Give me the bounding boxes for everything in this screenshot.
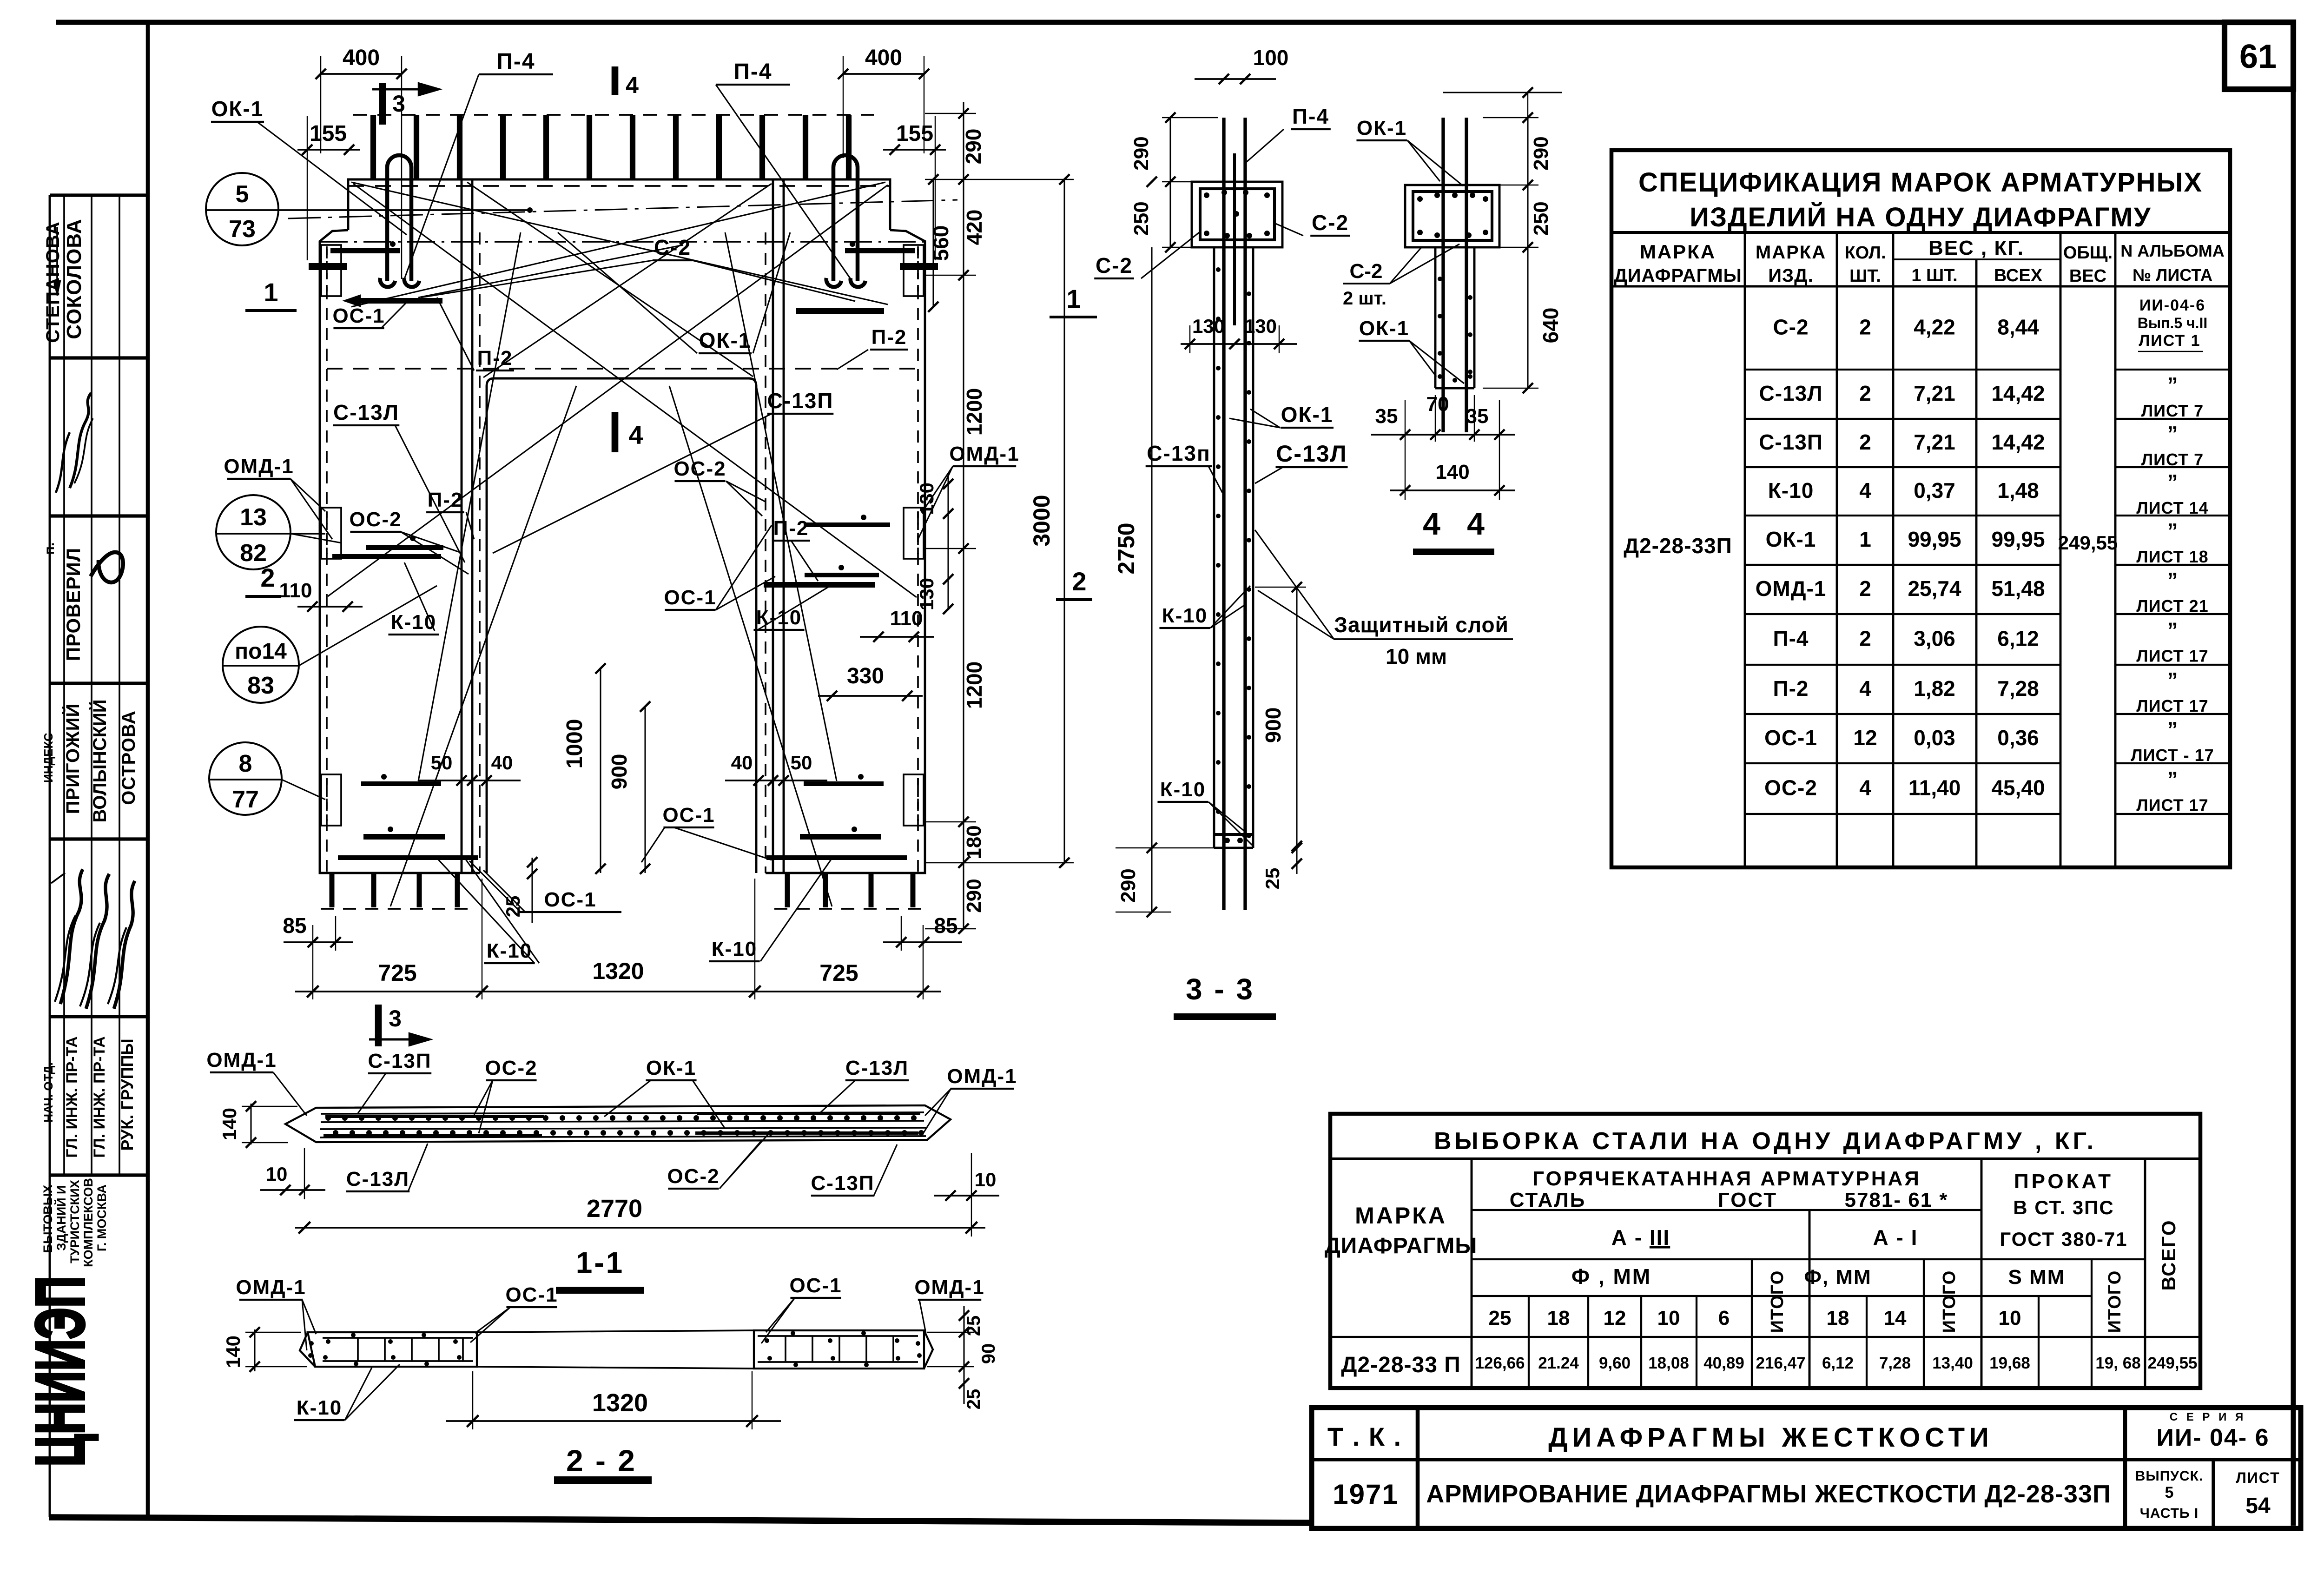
bottom dowels left leg (330, 873, 335, 907)
section 3-3 main bars ОК-1 (1222, 118, 1225, 910)
section 1-1 dots row1 (325, 1115, 331, 1121)
svg-text:ОС-1: ОС-1 (544, 888, 596, 911)
svg-text:2: 2 (1859, 430, 1871, 454)
svg-text:25: 25 (502, 896, 524, 918)
right dim 3000 (1063, 179, 1065, 863)
svg-text:4: 4 (1423, 506, 1440, 542)
svg-text:ОС-1: ОС-1 (662, 804, 715, 827)
svg-text:ОК-1: ОК-1 (1766, 527, 1816, 551)
signature strip grid (49, 195, 51, 1517)
svg-text:25,74: 25,74 (1908, 576, 1961, 601)
svg-text:4: 4 (1467, 506, 1485, 542)
section 1-1 dim 10 left (260, 1189, 325, 1191)
svg-text:725: 725 (378, 960, 416, 986)
svg-text:725: 725 (819, 960, 858, 986)
svg-text:900: 900 (1261, 708, 1285, 743)
svg-text:140: 140 (1435, 461, 1469, 483)
4-4 dim 140 (1390, 489, 1515, 491)
svg-text:ОК-1: ОК-1 (1357, 117, 1407, 139)
svg-text:ОК-1: ОК-1 (211, 97, 264, 121)
svg-text:”: ” (2167, 618, 2178, 642)
svg-text:ДИАФРАГМЫ: ДИАФРАГМЫ (1325, 1234, 1478, 1258)
spec table grid (1611, 231, 2230, 234)
svg-text:”: ” (2167, 422, 2178, 446)
svg-text:ОС-1: ОС-1 (1764, 726, 1817, 750)
svg-text:СТЕПАНОВА: СТЕПАНОВА (43, 221, 63, 343)
svg-text:П-4: П-4 (1292, 104, 1329, 128)
svg-text:0,37: 0,37 (1914, 478, 1955, 503)
frame bottom border (49, 1517, 1314, 1523)
ОМД-1 dashed anchor boxes right leg (904, 245, 924, 296)
svg-text:Д2-28-33П: Д2-28-33П (1624, 534, 1732, 558)
svg-text:ТУРИСТСКИХ: ТУРИСТСКИХ (68, 1180, 82, 1263)
svg-text:10: 10 (266, 1163, 288, 1185)
svg-text:К-10: К-10 (1162, 604, 1208, 627)
svg-text:250: 250 (1130, 201, 1153, 235)
svg-text:К-10: К-10 (712, 938, 757, 960)
svg-text:2 - 2: 2 - 2 (566, 1443, 637, 1478)
svg-text:330: 330 (847, 664, 884, 688)
svg-text:N АЛЬБОМА: N АЛЬБОМА (2120, 241, 2224, 260)
ОМД-1 dashed anchor boxes left leg (321, 245, 341, 296)
svg-text:ОК-1: ОК-1 (1281, 403, 1334, 427)
svg-text:”: ” (2167, 668, 2178, 692)
4-4 right chain 290/250/640 (1527, 118, 1528, 388)
svg-text:99,95: 99,95 (1908, 527, 1961, 551)
section 1-1 heavy mesh right (697, 1112, 920, 1115)
svg-text:ЛИСТ 18: ЛИСТ 18 (2136, 547, 2208, 566)
svg-text:”: ” (2167, 519, 2178, 543)
dim 100 top (1195, 78, 1276, 80)
svg-text:К-10: К-10 (1160, 778, 1206, 801)
svg-text:С-13П: С-13П (1759, 430, 1823, 454)
svg-text:КОМПЛЕКСОВ: КОМПЛЕКСОВ (81, 1178, 95, 1267)
svg-text:П-2: П-2 (773, 517, 809, 540)
right dim 180/290 bottom (925, 862, 976, 863)
svg-text:130: 130 (1192, 315, 1225, 337)
svg-text:ПРИГОЖИЙ: ПРИГОЖИЙ (62, 703, 83, 814)
svg-text:25: 25 (1261, 868, 1283, 890)
svg-text:6,12: 6,12 (1822, 1354, 1854, 1372)
svg-text:25: 25 (964, 1316, 984, 1336)
svg-text:130: 130 (916, 483, 938, 515)
svg-text:ГОСТ 380-71: ГОСТ 380-71 (2000, 1228, 2127, 1250)
svg-text:ГЛ. ИНЖ. ПР-ТА: ГЛ. ИНЖ. ПР-ТА (91, 1036, 108, 1157)
svg-text:11,40: 11,40 (1908, 776, 1961, 800)
section 4-4 strip (1434, 247, 1437, 388)
svg-text:”: ” (2167, 470, 2178, 494)
svg-text:ПРОВЕРИЛ: ПРОВЕРИЛ (62, 548, 84, 661)
svg-text:140: 140 (218, 1108, 240, 1140)
svg-text:4: 4 (1859, 478, 1871, 503)
svg-text:S ММ: S ММ (2008, 1266, 2066, 1289)
elevation top dashed tie line (353, 114, 874, 116)
svg-text:5: 5 (2165, 1484, 2174, 1501)
svg-text:7,21: 7,21 (1914, 430, 1955, 454)
svg-text:290: 290 (961, 129, 985, 165)
section 3-3 head outer (1192, 182, 1282, 247)
section 2-2 mid band (477, 1330, 754, 1332)
section 1-1 dim 2770 (295, 1227, 985, 1229)
svg-text:1000: 1000 (562, 719, 587, 769)
svg-text:1200: 1200 (962, 388, 986, 436)
frame left border (drawing area) (146, 22, 150, 1519)
svg-text:45,40: 45,40 (1991, 776, 2045, 800)
dim 110 left (297, 606, 363, 608)
svg-text:3: 3 (389, 1005, 402, 1032)
svg-text:1: 1 (264, 278, 278, 307)
svg-text:14,42: 14,42 (1991, 430, 2045, 454)
svg-text:19, 68: 19, 68 (2095, 1354, 2140, 1372)
flange dashed bar lines (348, 185, 890, 187)
svg-text:1971: 1971 (1333, 1479, 1398, 1510)
svg-text:ВОЛЫНСКИЙ: ВОЛЫНСКИЙ (89, 700, 110, 823)
svg-text:КОЛ.: КОЛ. (1844, 243, 1886, 263)
dim 900 (644, 707, 646, 873)
dim 110 right (860, 636, 934, 638)
svg-text:ОК-1: ОК-1 (1359, 317, 1409, 340)
svg-text:ДИАФРАГМЫ ЖЕСТКОСТИ: ДИАФРАГМЫ ЖЕСТКОСТИ (1548, 1422, 1994, 1453)
svg-text:70: 70 (1426, 393, 1449, 416)
svg-text:ЛИСТ 21: ЛИСТ 21 (2136, 596, 2208, 615)
section 3-3 head dots (1204, 192, 1209, 198)
svg-text:П-4: П-4 (733, 60, 772, 84)
svg-text:400: 400 (343, 46, 380, 70)
svg-text:ЛИСТ 1: ЛИСТ 1 (2139, 332, 2200, 350)
dash-dot axis across flange (288, 200, 957, 218)
svg-text:”: ” (2167, 767, 2178, 792)
svg-text:РУК. ГРУППЫ: РУК. ГРУППЫ (118, 1038, 137, 1151)
svg-text:ЗДАНИЙ И: ЗДАНИЙ И (54, 1185, 68, 1251)
svg-text:Д2-28-33 П: Д2-28-33 П (1341, 1353, 1460, 1377)
svg-text:С-13Л: С-13Л (333, 400, 399, 424)
svg-text:ОМД-1: ОМД-1 (236, 1276, 306, 1299)
svg-text:2: 2 (1859, 627, 1871, 651)
svg-text:2: 2 (260, 563, 275, 592)
svg-text:1-1: 1-1 (576, 1246, 625, 1279)
svg-text:С-2: С-2 (1350, 260, 1383, 283)
svg-text:ИТОГО: ИТОГО (2105, 1270, 2125, 1333)
section 3-3 bottom stirrup marks (1214, 833, 1253, 836)
section 4-4 head outer (1405, 185, 1499, 247)
steel table grid horizontals (1472, 1209, 1981, 1211)
svg-text:12: 12 (1853, 726, 1877, 750)
svg-text:Защитный слой: Защитный слой (1334, 613, 1509, 637)
dim 85 right (883, 941, 962, 943)
svg-text:0,36: 0,36 (1997, 726, 2039, 750)
svg-text:40: 40 (731, 752, 753, 774)
svg-text:7,28: 7,28 (1997, 676, 2039, 701)
svg-text:51,48: 51,48 (1991, 576, 2045, 601)
П-4 hairpin right (833, 155, 858, 281)
svg-text:126,66: 126,66 (1475, 1354, 1525, 1372)
bottom dowels right leg (785, 873, 790, 907)
svg-text:7,21: 7,21 (1914, 381, 1955, 405)
svg-text:ОК-1: ОК-1 (699, 328, 752, 352)
svg-text:ДИАФРАГМЫ: ДИАФРАГМЫ (1614, 265, 1742, 286)
svg-text:1: 1 (1066, 284, 1081, 313)
svg-text:ОК-1: ОК-1 (646, 1057, 696, 1079)
section 2-2 dim 1320 (446, 1420, 781, 1422)
svg-text:4: 4 (1859, 676, 1871, 701)
3-3 dim 25 (1296, 848, 1297, 874)
section 2-2 left block mesh ladder (323, 1337, 473, 1339)
svg-text:ГОСТ: ГОСТ (1718, 1189, 1777, 1211)
svg-text:ВСЕХ: ВСЕХ (1994, 266, 2043, 285)
svg-text:290: 290 (1130, 136, 1153, 170)
svg-text:2: 2 (1859, 315, 1871, 339)
svg-text:155: 155 (896, 121, 933, 146)
3-3 dim 290 bottom (1151, 848, 1152, 912)
svg-text:8,44: 8,44 (1997, 315, 2039, 339)
steel table outer frame (1330, 1114, 2200, 1388)
svg-text:П-4: П-4 (1773, 627, 1809, 651)
right dim chain 290/420/1200/1200 (963, 102, 964, 873)
svg-text:П-2: П-2 (1773, 676, 1809, 701)
svg-text:290: 290 (1117, 868, 1140, 902)
svg-text:АРМИРОВАНИЕ ДИАФРАГМЫ ЖЕСТКО: АРМИРОВАНИЕ ДИАФРАГМЫ ЖЕСТКОСТИ Д2-28-33… (1426, 1480, 2111, 1508)
svg-text:560: 560 (929, 225, 953, 261)
dim 155 right (883, 149, 946, 151)
svg-text:ЛИСТ 7: ЛИСТ 7 (2141, 450, 2204, 469)
svg-text:ОС-2: ОС-2 (485, 1057, 537, 1079)
svg-text:п.: п. (42, 542, 57, 555)
section 4-4 head stirrup (1413, 192, 1492, 240)
svg-text:ОМД-1: ОМД-1 (947, 1065, 1017, 1088)
svg-text:420: 420 (962, 210, 986, 245)
svg-text:155: 155 (310, 121, 347, 146)
mark circle 5/73 (206, 173, 278, 245)
svg-text:900: 900 (607, 754, 631, 790)
svg-text:83: 83 (247, 672, 274, 699)
svg-text:ОБЩ.: ОБЩ. (2063, 243, 2113, 263)
section 1-1 mesh lines (321, 1112, 924, 1114)
section 2-2 dim 140 (254, 1329, 255, 1371)
section 2-2 right block (754, 1330, 924, 1369)
svg-text:Вып.5 ч.II: Вып.5 ч.II (2138, 315, 2208, 331)
3-3 dim 130 130 (1181, 343, 1297, 345)
svg-text:4: 4 (628, 420, 643, 450)
svg-text:25: 25 (1489, 1307, 1512, 1329)
svg-text:40,89: 40,89 (1703, 1354, 1744, 1372)
svg-text:140: 140 (222, 1336, 244, 1368)
svg-text:ЛИСТ 17: ЛИСТ 17 (2136, 647, 2208, 666)
svg-text:С-13Л: С-13Л (346, 1168, 409, 1190)
heavy rebar bars right leg (845, 248, 915, 253)
bottom dim chain 725 1320 725 (295, 991, 941, 992)
long thin leader diagonals (351, 182, 885, 307)
svg-text:2: 2 (1072, 567, 1086, 596)
svg-text:18,08: 18,08 (1648, 1354, 1689, 1372)
svg-text:3000: 3000 (1029, 495, 1055, 546)
svg-text:18: 18 (1827, 1307, 1849, 1329)
section 2-2 left block (308, 1332, 477, 1367)
svg-text:50: 50 (791, 752, 812, 774)
svg-text:ОС-1: ОС-1 (505, 1283, 558, 1306)
svg-text:Ф, ММ: Ф, ММ (1804, 1266, 1871, 1289)
section 2-2 dims 25 90 25 (963, 1306, 964, 1404)
svg-text:СОКОЛОВА: СОКОЛОВА (63, 218, 86, 339)
svg-text:14: 14 (1884, 1307, 1907, 1329)
svg-text:НАЧ. ОТД.: НАЧ. ОТД. (41, 1062, 55, 1123)
svg-text:СТАЛЬ: СТАЛЬ (1510, 1189, 1586, 1211)
svg-text:35: 35 (1375, 405, 1398, 428)
svg-text:180: 180 (963, 825, 985, 859)
svg-text:ВЕС: ВЕС (2069, 266, 2106, 286)
svg-text:МАРКА: МАРКА (1355, 1203, 1447, 1229)
svg-text:ОСТРОВА: ОСТРОВА (119, 710, 139, 805)
4-4 dims 35 70 35 (1371, 434, 1515, 436)
svg-text:54: 54 (2245, 1494, 2271, 1518)
right dim 560 (932, 179, 934, 307)
svg-text:100: 100 (1253, 46, 1289, 70)
strip handwritten signatures 1 (70, 393, 91, 488)
svg-text:А - III: А - III (1611, 1225, 1670, 1250)
svg-text:С-2: С-2 (1096, 253, 1133, 278)
dim 400 right top (843, 73, 924, 75)
svg-text:С-2: С-2 (1312, 211, 1349, 235)
title block outer (1312, 1408, 2301, 1528)
svg-text:130: 130 (1244, 315, 1277, 337)
svg-text:110: 110 (890, 607, 923, 630)
svg-text:ОМД-1: ОМД-1 (949, 443, 1019, 465)
svg-text:”: ” (2167, 568, 2178, 592)
svg-text:25: 25 (964, 1389, 984, 1410)
svg-text:С-2: С-2 (654, 235, 691, 259)
section 4-4 head dots (1417, 196, 1423, 202)
svg-text:С Е Р И Я: С Е Р И Я (2170, 1411, 2246, 1423)
section mark 4 in doorway (612, 412, 619, 452)
frame top border (56, 20, 2293, 25)
small down arrow top left (56, 227, 58, 293)
elevation leg inner edge lines (461, 180, 463, 873)
section mark 3 bottom (375, 1005, 382, 1046)
dims 40 50 right (725, 780, 827, 781)
svg-text:ЛИСТ 7: ЛИСТ 7 (2141, 401, 2204, 420)
svg-text:С-13П: С-13П (811, 1172, 875, 1195)
elevation panel outline (348, 179, 890, 230)
svg-text:13: 13 (240, 504, 267, 531)
mark circle 8/77 (209, 742, 282, 815)
svg-text:ИТОГО: ИТОГО (1940, 1270, 1959, 1333)
svg-text:В СТ. 3ПС: В СТ. 3ПС (2013, 1197, 2114, 1218)
section 3-3 strip (1213, 247, 1215, 848)
svg-text:216,47: 216,47 (1756, 1354, 1805, 1372)
svg-text:1200: 1200 (962, 661, 986, 709)
svg-text:50: 50 (431, 752, 453, 774)
dims 50 40 left (418, 780, 521, 781)
svg-text:90: 90 (978, 1343, 999, 1364)
svg-text:250: 250 (1530, 201, 1552, 235)
doorway opening outline (487, 378, 756, 873)
svg-text:1,82: 1,82 (1914, 676, 1955, 701)
heavy step bars at flange ends (309, 263, 347, 270)
svg-text:С-13Л: С-13Л (1759, 381, 1823, 405)
svg-text:ВСЕГО: ВСЕГО (2158, 1219, 2179, 1290)
section mark 3 top (379, 83, 386, 125)
svg-text:ОС-2: ОС-2 (667, 1165, 720, 1188)
svg-text:П-2: П-2 (871, 326, 907, 349)
svg-text:С-13п: С-13п (1147, 441, 1211, 465)
svg-text:СПЕЦИФИКАЦИЯ МАРОК АРМАТУРНЫ: СПЕЦИФИКАЦИЯ МАРОК АРМАТУРНЫХ (1638, 167, 2203, 198)
svg-text:ВЫПУСК.: ВЫПУСК. (2135, 1468, 2204, 1484)
svg-text:П-2: П-2 (477, 347, 513, 370)
svg-text:3: 3 (392, 91, 405, 117)
svg-text:ЛИСТ: ЛИСТ (2236, 1469, 2280, 1486)
svg-text:ВЕС , КГ.: ВЕС , КГ. (1928, 237, 2024, 259)
svg-text:ПРОКАТ: ПРОКАТ (2014, 1170, 2113, 1193)
mark circle по14/83 (223, 627, 299, 703)
svg-text:77: 77 (232, 786, 259, 813)
svg-text:№ ЛИСТА: № ЛИСТА (2133, 265, 2212, 284)
svg-text:А - I: А - I (1873, 1225, 1918, 1250)
svg-text:10: 10 (1999, 1307, 2021, 1329)
frame right border (2291, 22, 2296, 1526)
svg-text:ЧАСТЬ I: ЧАСТЬ I (2140, 1506, 2199, 1521)
svg-text:5: 5 (236, 181, 249, 208)
svg-text:290: 290 (1530, 136, 1552, 170)
svg-text:4: 4 (1859, 776, 1871, 800)
svg-text:99,95: 99,95 (1991, 527, 2045, 551)
svg-text:Ф , ММ: Ф , ММ (1571, 1264, 1651, 1289)
svg-text:С-13П: С-13П (767, 389, 834, 413)
svg-text:С-2: С-2 (1773, 315, 1809, 339)
section mark 4 top (612, 66, 619, 95)
section 4-4 strip dots (1438, 277, 1442, 281)
svg-text:3,06: 3,06 (1914, 627, 1955, 651)
svg-text:ОС-2: ОС-2 (349, 508, 402, 531)
svg-text:ИТОГО: ИТОГО (1768, 1270, 1787, 1333)
svg-text:130: 130 (916, 578, 938, 610)
svg-text:К-10: К-10 (297, 1396, 342, 1419)
svg-text:по14: по14 (235, 639, 287, 664)
svg-text:Г. МОСКВА: Г. МОСКВА (95, 1184, 109, 1251)
svg-text:85: 85 (934, 913, 957, 938)
steel table grid verticals (1471, 1159, 1473, 1388)
title block grid (1312, 1458, 2301, 1461)
svg-text:8: 8 (239, 750, 252, 777)
svg-text:К-10: К-10 (1768, 478, 1814, 503)
svg-text:ОС-1: ОС-1 (789, 1274, 842, 1297)
svg-text:ЛИСТ 14: ЛИСТ 14 (2136, 498, 2208, 517)
section 2-2 right block mesh ladder (758, 1335, 918, 1337)
svg-text:ОМД-1: ОМД-1 (1756, 576, 1827, 601)
svg-text:ОС-1: ОС-1 (332, 304, 385, 327)
svg-text:ГЛ. ИНЖ. ПР-ТА: ГЛ. ИНЖ. ПР-ТА (63, 1036, 81, 1157)
svg-text:2 шт.: 2 шт. (1343, 288, 1386, 309)
dim 1000 (600, 668, 601, 873)
svg-text:85: 85 (283, 913, 306, 938)
svg-text:13,40: 13,40 (1932, 1354, 1973, 1372)
svg-text:ИЗД.: ИЗД. (1768, 265, 1813, 286)
svg-text:18: 18 (1547, 1307, 1570, 1329)
svg-text:2770: 2770 (587, 1195, 642, 1223)
svg-text:1 ШТ.: 1 ШТ. (1911, 266, 1957, 285)
svg-text:2750: 2750 (1113, 522, 1139, 574)
svg-text:1: 1 (1859, 527, 1871, 551)
svg-text:ОС-1: ОС-1 (664, 586, 716, 609)
svg-text:249,55: 249,55 (2147, 1354, 2197, 1372)
svg-text:С-13Л: С-13Л (1276, 441, 1347, 467)
svg-text:400: 400 (865, 46, 902, 70)
svg-text:21.24: 21.24 (1538, 1354, 1579, 1372)
svg-text:10 мм: 10 мм (1386, 644, 1447, 668)
П-4 hairpin left (387, 155, 411, 281)
elevation top dowel ticks (370, 115, 376, 179)
svg-text:2: 2 (1859, 381, 1871, 405)
dim 85 left (284, 941, 353, 943)
svg-text:С-13П: С-13П (368, 1050, 432, 1072)
